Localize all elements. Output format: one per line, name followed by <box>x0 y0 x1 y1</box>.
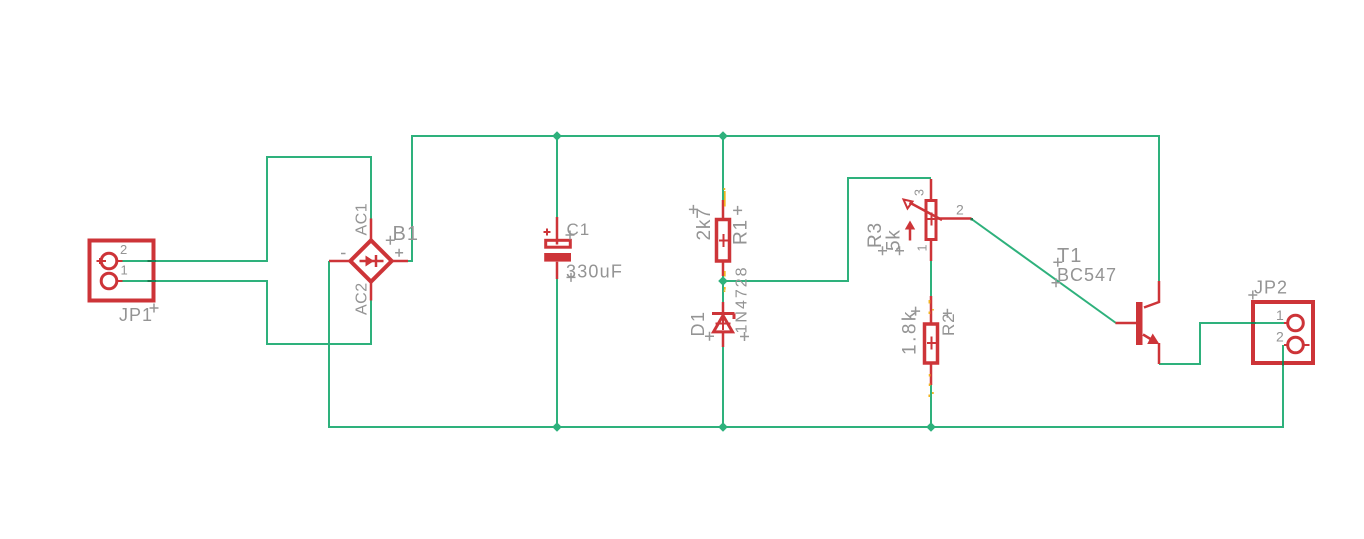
svg-text:2: 2 <box>120 242 127 257</box>
svg-text:JP1: JP1 <box>119 305 153 325</box>
svg-text:B1: B1 <box>393 223 419 245</box>
svg-text:AC1: AC1 <box>354 203 371 236</box>
svg-text:T1: T1 <box>1057 245 1082 267</box>
svg-text:1N4728: 1N4728 <box>734 265 751 333</box>
svg-text:2k7: 2k7 <box>694 207 715 240</box>
svg-text:2: 2 <box>956 202 964 218</box>
svg-text:1: 1 <box>916 245 930 252</box>
svg-text:1.8k: 1.8k <box>900 309 921 355</box>
svg-text:R1: R1 <box>731 219 752 245</box>
svg-text:BC547: BC547 <box>1057 265 1117 285</box>
svg-text:JP2: JP2 <box>1254 278 1288 298</box>
svg-text:1: 1 <box>121 263 128 278</box>
svg-text:5k: 5k <box>884 229 905 251</box>
svg-text:R2: R2 <box>939 313 958 336</box>
svg-text:330uF: 330uF <box>566 262 623 282</box>
svg-text:1: 1 <box>1276 307 1284 323</box>
svg-text:C1: C1 <box>567 220 591 239</box>
svg-text:AC2: AC2 <box>354 282 371 315</box>
svg-text:3: 3 <box>913 189 927 196</box>
svg-text:D1: D1 <box>688 310 708 336</box>
svg-text:2: 2 <box>1276 329 1284 345</box>
